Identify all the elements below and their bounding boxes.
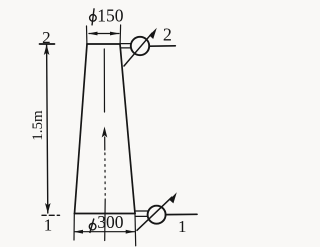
svg-text:1.5m: 1.5m — [30, 110, 46, 141]
extension line bottom-left — [73, 214, 75, 241]
arrowhead 1.5m up — [44, 45, 50, 56]
svg-text:1: 1 — [178, 217, 187, 236]
label 1.5m (rotated) — [30, 110, 46, 141]
dim line phi300 — [75, 231, 135, 233]
label phi150 digits — [97, 6, 124, 26]
tick section 1 left (dashed) — [42, 214, 60, 216]
section line 2 right — [149, 45, 175, 47]
extension line top-left — [86, 26, 88, 44]
label 1 right — [178, 217, 187, 236]
label 2 right — [163, 25, 172, 45]
centerline — [103, 49, 106, 241]
dim line phi150 — [89, 33, 119, 35]
gauge U1 arrow line — [137, 197, 172, 230]
arrowhead phi150 right — [110, 32, 120, 36]
label phi300 phi symbol — [89, 219, 96, 234]
svg-text:2: 2 — [163, 25, 172, 45]
gauge U2 circle — [131, 37, 149, 55]
gauge U2 arrow line — [124, 33, 152, 66]
column left edge — [75, 44, 88, 214]
gauge U1 stem — [136, 211, 148, 216]
column bottom edge — [75, 213, 136, 215]
extension line bottom-right — [134, 214, 137, 246]
section line 1 right — [166, 213, 197, 215]
label phi150 phi symbol — [90, 8, 97, 25]
dim 1.5m vertical line — [47, 45, 48, 213]
gauge U1 circle — [148, 206, 166, 224]
arrowhead phi150 left — [88, 32, 98, 36]
svg-text:2: 2 — [42, 28, 51, 47]
svg-text:300: 300 — [97, 212, 124, 232]
svg-text:150: 150 — [97, 6, 124, 26]
svg-text:1: 1 — [44, 215, 53, 234]
gauge U2 arrowhead — [149, 28, 157, 39]
gauge U1 arrowhead — [169, 192, 176, 203]
gauge U2 stem — [121, 44, 131, 48]
arrowhead phi300 left — [74, 230, 83, 234]
column top edge — [87, 43, 120, 45]
arrowhead phi300 right — [126, 230, 136, 234]
label 1 left — [44, 215, 53, 234]
extension line top-right — [119, 25, 122, 44]
label 2 left — [42, 28, 51, 47]
tick section 2 left — [40, 43, 55, 45]
label phi300 digits — [97, 212, 124, 232]
arrowhead 1.5m down — [45, 203, 51, 214]
centerline up arrow — [102, 127, 108, 138]
column right edge — [120, 44, 135, 214]
